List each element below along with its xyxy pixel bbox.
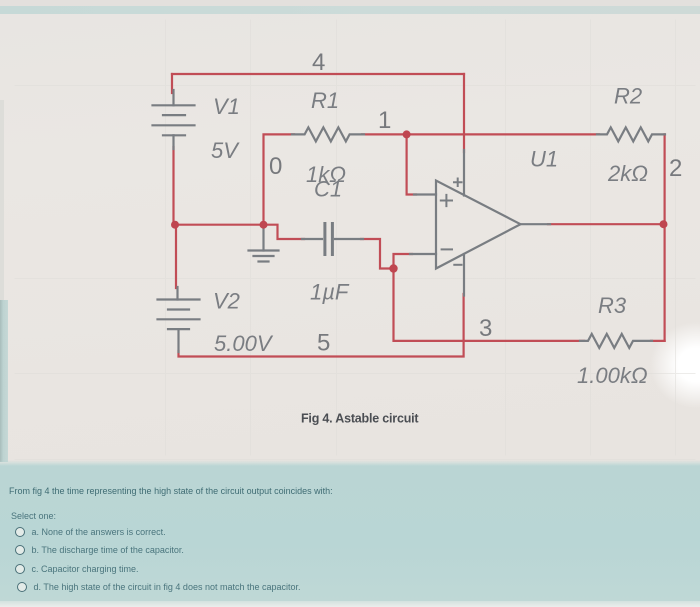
node 1 dot xyxy=(403,130,411,138)
node E dot xyxy=(389,264,397,272)
battery V1 xyxy=(153,90,195,149)
svg-text:5: 5 xyxy=(317,330,330,357)
wire: V1 top xyxy=(171,74,173,93)
ground xyxy=(249,226,279,262)
glare bottom right xyxy=(625,305,700,430)
svg-text:U1: U1 xyxy=(530,147,558,172)
pin out xyxy=(521,223,551,225)
pin +in xyxy=(414,193,436,195)
svg-text:V1: V1 xyxy=(213,94,240,119)
svg-text:C1: C1 xyxy=(314,177,342,202)
V+ symbol xyxy=(454,179,462,187)
wire: A to B xyxy=(174,224,264,226)
svg-text:R3: R3 xyxy=(598,293,627,318)
wire: capacitor right to E xyxy=(361,239,394,269)
svg-text:V2: V2 xyxy=(213,289,240,314)
wire: V1 bottom to junction A xyxy=(172,147,174,225)
main document area xyxy=(0,14,700,462)
battery V2 xyxy=(158,287,200,352)
wire: node1 to R2 xyxy=(407,133,599,135)
pin -in xyxy=(410,253,436,255)
-in symbol xyxy=(442,248,452,250)
svg-text:5.00V: 5.00V xyxy=(214,331,274,356)
wire: E up to -input xyxy=(394,254,413,269)
resistor R1 xyxy=(292,127,364,141)
wire: R3 right to node2 bottom xyxy=(651,340,665,342)
node B dot xyxy=(260,221,268,229)
wire: V2 bottom rail xyxy=(179,294,464,357)
junction dots xyxy=(171,130,668,272)
svg-text:1: 1 xyxy=(378,107,391,134)
capacitor C1 xyxy=(302,224,363,255)
resistor R3 xyxy=(580,334,652,348)
wire: A down to V2 xyxy=(175,225,177,288)
svg-text:4: 4 xyxy=(312,49,325,76)
bottom teal section xyxy=(0,460,700,601)
pin V- xyxy=(463,254,465,296)
opamp +/- symbols xyxy=(441,179,462,265)
+in symbol xyxy=(441,195,452,206)
top teal bar xyxy=(0,6,700,14)
wire: B to capacitor jog xyxy=(264,225,305,239)
resistor R2 xyxy=(597,127,665,141)
svg-text:Fig 4. Astable circuit: Fig 4. Astable circuit xyxy=(301,412,419,426)
wire: output to node2 xyxy=(548,223,665,225)
svg-text:2: 2 xyxy=(669,155,682,182)
wire: top net 4 xyxy=(172,73,464,75)
svg-text:0: 0 xyxy=(269,153,282,180)
svg-text:1.00kΩ: 1.00kΩ xyxy=(577,363,648,388)
top white strip xyxy=(0,0,700,6)
question block xyxy=(9,486,689,496)
node 2 dot xyxy=(660,220,668,228)
left teal strip lower xyxy=(0,300,8,462)
svg-text:3: 3 xyxy=(479,315,492,342)
svg-text:R1: R1 xyxy=(311,88,339,113)
node A dot xyxy=(171,221,179,229)
wire: R2 right corner down node 2 xyxy=(663,134,665,341)
wire: +input branch xyxy=(407,134,416,194)
V- symbol xyxy=(454,264,461,266)
wire: R1 right to node1 dot xyxy=(362,133,407,135)
svg-text:5V: 5V xyxy=(211,138,240,163)
op-amp U1 xyxy=(410,150,550,296)
pin V+ xyxy=(463,150,465,196)
svg-text:R2: R2 xyxy=(614,84,642,109)
bottom light strip xyxy=(0,601,700,607)
wire: E down node 3 to R3 xyxy=(394,269,585,341)
wire: opamp V+ feed xyxy=(463,74,465,152)
svg-text:2kΩ: 2kΩ xyxy=(607,161,648,186)
wire: node 0 vertical xyxy=(264,134,295,224)
svg-text:1µF: 1µF xyxy=(310,280,350,305)
